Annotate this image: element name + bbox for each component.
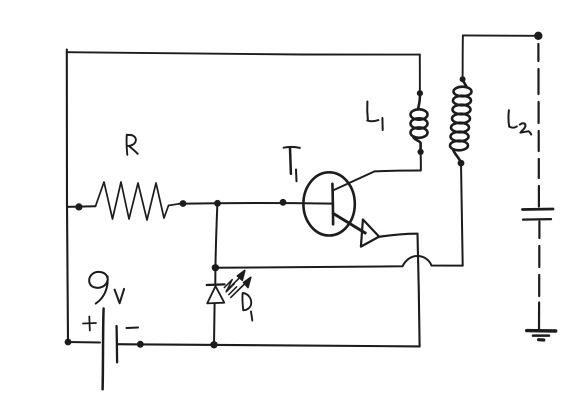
wire L2 top vertical (462, 35, 464, 79)
transistor T1 emitter line (333, 214, 365, 234)
battery plus sign (83, 317, 96, 331)
node dot L1 top (417, 90, 423, 96)
wire feedback horizontal with hop (215, 256, 462, 268)
wire left rail (67, 50, 68, 343)
node dot top right (534, 32, 542, 40)
inductor L1 (411, 93, 428, 152)
wire stub from base wire down to diode (215, 203, 217, 267)
inductor L2 feedback winding (450, 79, 472, 163)
LED arrow 2 (231, 277, 251, 297)
wire L1 top vertical (419, 55, 421, 94)
wire L1 bottom to collector wire (420, 152, 422, 170)
wire L2 bottom vertical down (461, 163, 463, 266)
wire emitter vertical down (418, 234, 420, 347)
diode D1 cathode bar (207, 283, 225, 286)
wire emitter to corner (379, 234, 417, 237)
wire top right horizontal (463, 34, 538, 36)
label D1 (242, 293, 252, 321)
LED arrow 1 (227, 270, 245, 290)
diode D1 cathode stub (214, 268, 216, 285)
wire rail to battery (68, 341, 100, 344)
diode D1 triangle (207, 286, 224, 303)
node dot diode top junction (212, 264, 219, 271)
node dot left base junction (75, 203, 82, 210)
label 9V (89, 272, 124, 304)
wire battery to bottom rail (118, 344, 420, 346)
LED arrows zigzag scribble (224, 280, 236, 295)
wire top rail (67, 52, 420, 54)
label R (127, 135, 138, 155)
dashed wire upper (537, 44, 540, 207)
ground symbol (527, 329, 556, 333)
node dot L2 top (460, 76, 466, 82)
transistor T1 circle (303, 172, 354, 235)
battery minus sign (127, 327, 139, 330)
battery short plate (115, 326, 118, 362)
node dot at transistor base (280, 199, 287, 206)
node dot battery right (137, 341, 144, 348)
node dot diode bottom junction (210, 341, 217, 348)
node dot L2 bottom (458, 160, 465, 167)
transistor T1 collector line to L1 (333, 171, 421, 191)
battery long plate (103, 309, 104, 390)
cell plate bottom (523, 218, 551, 221)
transistor T1 emitter arrowhead (361, 220, 379, 247)
label T1 (284, 147, 300, 181)
label L1 (367, 102, 383, 131)
label L2 (508, 110, 531, 134)
node dot battery left (65, 339, 72, 346)
wire resistor left lead (67, 205, 96, 208)
diode D1 anode stub (213, 303, 216, 345)
node dot at diode stub junction (214, 200, 221, 207)
node dot L1 bottom (418, 149, 424, 155)
wire base segment (179, 202, 332, 205)
cell plate top (523, 208, 554, 211)
dashed wire lower (538, 222, 541, 330)
resistor R (96, 182, 180, 220)
transistor T1 base bar (331, 184, 334, 224)
node dot after resistor (180, 200, 187, 207)
